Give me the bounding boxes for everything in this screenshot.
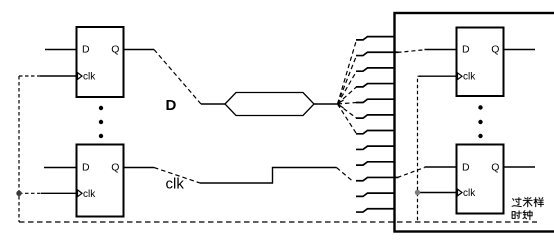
svg-text:D: D <box>462 161 470 173</box>
svg-text:Q: Q <box>491 44 499 56</box>
svg-text:Q: Q <box>491 161 499 173</box>
svg-text:D: D <box>166 97 177 114</box>
svg-text:D: D <box>82 162 90 174</box>
svg-text:D: D <box>82 44 90 56</box>
svg-text:clk: clk <box>463 188 476 199</box>
svg-text:Q: Q <box>111 162 119 174</box>
svg-text:D: D <box>462 44 470 56</box>
svg-text:clk: clk <box>83 189 96 200</box>
svg-text:clk: clk <box>166 176 185 193</box>
svg-text:Q: Q <box>111 44 119 56</box>
svg-text:clk: clk <box>463 72 476 83</box>
svg-text:clk: clk <box>83 72 96 83</box>
